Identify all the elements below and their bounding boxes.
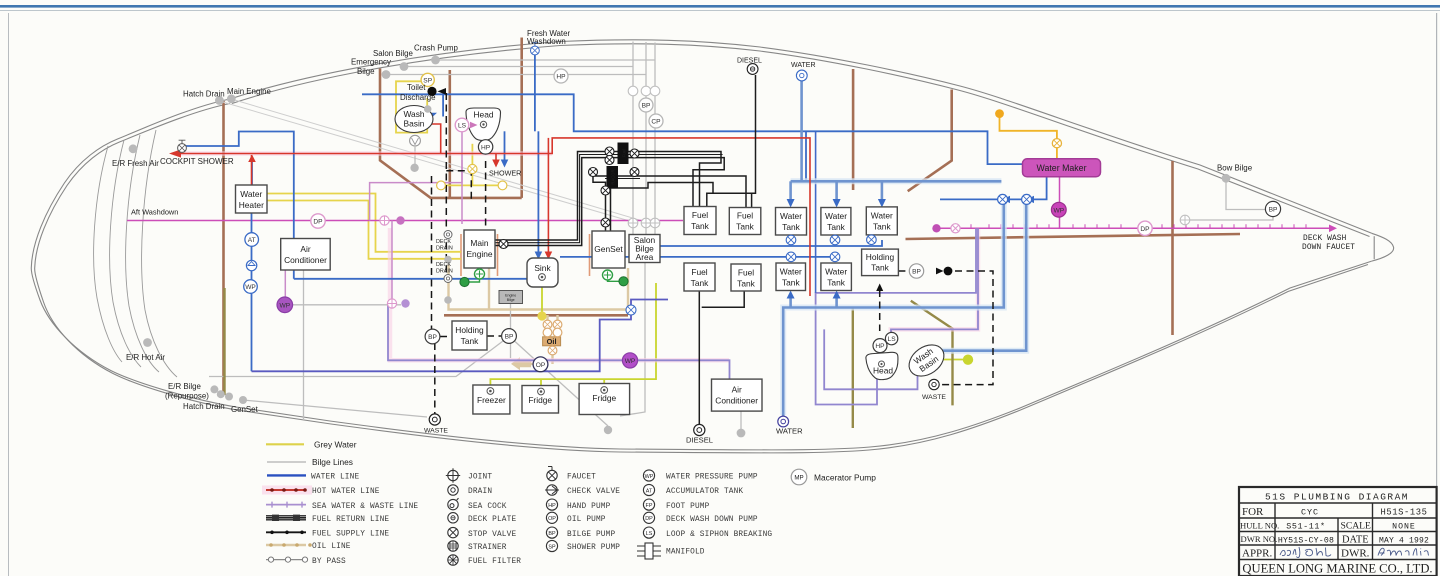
svg-text:Conditioner: Conditioner: [284, 255, 327, 265]
legend accumulator tank: [643, 484, 743, 496]
deck drain labels: [436, 239, 453, 275]
svg-text:Bilge Lines: Bilge Lines: [312, 457, 353, 467]
toilet discharge arrow: [438, 88, 447, 95]
svg-text:DP: DP: [645, 516, 653, 522]
legend fuel return line: [266, 515, 389, 524]
svg-text:51S PLUMBING DIAGRAM: 51S PLUMBING DIAGRAM: [1265, 492, 1409, 503]
svg-text:HULL NO.: HULL NO.: [1240, 520, 1279, 530]
svg-text:OP: OP: [548, 516, 556, 522]
svg-text:WATER LINE: WATER LINE: [311, 474, 359, 482]
signature appr: [1280, 547, 1331, 558]
air conditioner fwd: [712, 379, 763, 411]
oil pump arrow: [511, 357, 531, 370]
svg-text:Tank: Tank: [691, 221, 710, 231]
fuel tank 4: [731, 264, 761, 291]
by pass dashed lines: [432, 93, 994, 414]
svg-text:Bilge: Bilge: [507, 298, 515, 302]
waste basin loop: [824, 329, 917, 389]
bilge pump BP aft1: [425, 329, 440, 344]
bilge line emergency: [386, 42, 646, 235]
fuel return ME: [495, 158, 724, 246]
crash pump CP grey: [649, 114, 663, 128]
svg-text:Bow Bilge: Bow Bilge: [1217, 164, 1253, 173]
svg-text:FUEL RETURN LINE: FUEL RETURN LINE: [312, 516, 389, 524]
tank manifold drop: [805, 131, 807, 181]
legend water line: [267, 474, 359, 482]
legend oil pump: [546, 512, 605, 524]
svg-text:BP: BP: [428, 334, 437, 341]
fuel valves: [499, 147, 639, 249]
olive drain lines: [225, 288, 953, 428]
fuel tank 3: [684, 263, 715, 291]
toilet discharge label: [400, 83, 436, 102]
bulkhead cockpit mid: [448, 70, 451, 198]
svg-text:WP: WP: [1053, 207, 1064, 214]
legend macerator pump: [791, 469, 876, 485]
wash basin hot: [429, 124, 441, 154]
waste pump WP mid: [622, 353, 637, 368]
legend grey water: [266, 440, 357, 450]
main engine: [464, 230, 495, 268]
svg-text:DP: DP: [1140, 226, 1150, 233]
svg-text:Main Engine: Main Engine: [227, 87, 271, 96]
grey water heater loop lower: [267, 201, 461, 259]
cockpit shower hot: [176, 138, 810, 296]
svg-text:WASTE: WASTE: [922, 394, 946, 401]
deck plate water bottom: [778, 416, 789, 427]
sea water orchid lines: [285, 132, 462, 304]
svg-text:Tank: Tank: [827, 278, 846, 288]
oil tan lines: [449, 265, 629, 364]
wash basin feed: [442, 94, 444, 116]
svg-text:WP: WP: [645, 474, 654, 480]
shower pump SP: [421, 73, 434, 86]
svg-text:Fuel: Fuel: [738, 268, 754, 278]
basin aft drain dot: [410, 164, 418, 172]
oil strainers: [543, 320, 562, 355]
bypass holding aft: [431, 176, 433, 330]
title text: [1265, 492, 1429, 546]
svg-text:Air: Air: [732, 385, 742, 395]
legend loop siphon breaking: [643, 527, 772, 539]
water tank 2: [821, 208, 851, 236]
svg-text:OIL LINE: OIL LINE: [312, 543, 351, 551]
svg-text:DWR NO.: DWR NO.: [1241, 534, 1278, 544]
tank feed lower manifold: [783, 199, 1004, 421]
deck plate water top: [796, 70, 807, 81]
legend hand pump: [546, 499, 610, 511]
fuel return genset: [611, 183, 714, 232]
legend fuel supply line: [266, 531, 389, 539]
water heater drop: [251, 214, 253, 372]
svg-text:Tank: Tank: [736, 222, 755, 232]
svg-text:SP: SP: [548, 544, 556, 550]
svg-text:Freezer: Freezer: [477, 395, 506, 405]
svg-text:DECK WASH DOWN PUMP: DECK WASH DOWN PUMP: [666, 516, 758, 524]
svg-text:FP: FP: [646, 503, 653, 509]
grey water chartreuse: [490, 281, 966, 390]
bilge WP aft link: [292, 304, 401, 306]
amber water maker feed: [1000, 117, 1057, 159]
legend shower pump: [546, 540, 620, 552]
holding tank fwd: [862, 249, 899, 276]
tank valves: [626, 235, 876, 315]
fuel supply genset: [593, 176, 746, 231]
water tank 4: [776, 263, 806, 291]
svg-text:WASTE: WASTE: [424, 428, 448, 435]
svg-text:Tank: Tank: [737, 279, 756, 289]
steel line glow: [783, 181, 1026, 415]
legend faucet: [547, 467, 596, 482]
legend strainer: [448, 541, 507, 552]
svg-text:WP: WP: [245, 284, 256, 291]
loop siphon LS aft: [455, 118, 469, 132]
svg-text:JOINT: JOINT: [468, 474, 492, 482]
svg-text:FOR: FOR: [1242, 506, 1264, 518]
hot water red network: [176, 124, 810, 296]
legend sea cock: [448, 498, 507, 511]
svg-text:BY PASS: BY PASS: [312, 558, 346, 566]
amber dot: [995, 109, 1004, 118]
svg-text:WATER PRESSURE PUMP: WATER PRESSURE PUMP: [666, 474, 758, 482]
shower drop: [504, 131, 506, 160]
salon bilge area: [629, 235, 660, 263]
fridge2 drain: [601, 387, 608, 394]
svg-text:DECK PLATE: DECK PLATE: [468, 516, 516, 524]
legend deck wash down pump: [643, 512, 758, 524]
waste head loop: [816, 228, 976, 404]
svg-text:DRAIN: DRAIN: [468, 488, 492, 496]
bilge grey lines: [209, 42, 1273, 430]
legend stop valve: [448, 527, 517, 538]
bilge point dots: [129, 56, 1231, 438]
tank fill arrows: [429, 113, 1034, 299]
head water violet vertical: [815, 131, 817, 293]
svg-text:Oil: Oil: [547, 337, 557, 346]
bilge line AC drain: [303, 270, 305, 420]
svg-text:Heater: Heater: [239, 200, 264, 210]
bulkhead mid ship: [852, 69, 855, 190]
bilge line main engine: [231, 99, 646, 222]
svg-text:BP: BP: [505, 334, 514, 341]
deck plate diesel bottom: [694, 424, 705, 435]
svg-text:Area: Area: [636, 252, 654, 262]
deck plate waste aft: [429, 414, 440, 425]
bilge engine box drain: [510, 303, 512, 358]
head aft shape: [466, 108, 501, 141]
svg-text:ACCUMULATOR TANK: ACCUMULATOR TANK: [666, 488, 743, 496]
svg-text:Water: Water: [780, 267, 802, 277]
bilge line salon: [404, 42, 633, 236]
svg-text:Main: Main: [470, 238, 488, 248]
bilge drain basin aft: [414, 147, 416, 164]
loop siphon LS fwd: [885, 332, 897, 344]
water heater: [236, 185, 268, 213]
head aft drain: [480, 121, 486, 127]
svg-text:S51-11*: S51-11*: [1286, 522, 1325, 532]
svg-text:Tank: Tank: [871, 263, 890, 273]
svg-text:Fuel: Fuel: [737, 211, 753, 221]
aft washdown magenta line: [127, 221, 1329, 229]
svg-text:HOT WATER LINE: HOT WATER LINE: [312, 488, 380, 496]
svg-text:Toilet: Toilet: [407, 83, 426, 92]
svg-text:DRAIN: DRAIN: [436, 269, 453, 275]
water maker pump WP fwd: [1051, 202, 1066, 217]
svg-text:FAUCET: FAUCET: [567, 474, 596, 482]
legend deck plate: [448, 513, 517, 524]
bilge line AC fwd drain: [740, 411, 742, 429]
svg-text:LS: LS: [888, 336, 897, 343]
svg-text:STRAINER: STRAINER: [468, 544, 507, 552]
svg-text:MP: MP: [794, 475, 803, 482]
legend drain: [448, 485, 493, 496]
svg-text:DP: DP: [313, 219, 323, 226]
grey water dot basin fwd: [963, 355, 973, 365]
sink feed: [537, 131, 539, 252]
water deck fill drop: [800, 80, 803, 181]
svg-text:Fuel: Fuel: [692, 210, 708, 220]
deck plate diesel top: [747, 64, 758, 75]
toilet SP drain dot: [424, 105, 432, 113]
fresh water washdown drop: [534, 55, 536, 131]
svg-text:DATE: DATE: [1342, 534, 1369, 545]
fuel tank 2: [729, 208, 761, 235]
title block: [1239, 487, 1437, 576]
washdown ticks: [971, 224, 1306, 228]
washdown pair left: [391, 221, 393, 304]
svg-text:DECK: DECK: [436, 262, 451, 268]
water tank 5: [821, 263, 852, 291]
shower hot drop: [495, 154, 497, 161]
svg-text:Holding: Holding: [866, 252, 895, 262]
bilge line bow: [1226, 181, 1266, 210]
sink drain: [539, 274, 546, 281]
svg-text:Air: Air: [300, 244, 310, 254]
svg-text:Bilge: Bilge: [357, 67, 375, 76]
svg-text:Fuel: Fuel: [622, 149, 627, 157]
svg-text:GenSet: GenSet: [231, 405, 259, 414]
svg-text:Fuel: Fuel: [691, 267, 707, 277]
diesel fill drop: [707, 75, 756, 207]
washdown dot aft: [396, 216, 404, 224]
svg-text:SEA COCK: SEA COCK: [468, 503, 507, 511]
svg-text:OIL PUMP: OIL PUMP: [567, 516, 606, 524]
svg-text:GenSet: GenSet: [594, 244, 623, 254]
cockpit shower water: [184, 132, 294, 279]
svg-text:E/R Fresh Air: E/R Fresh Air: [112, 159, 159, 168]
fuel crossover lower: [698, 291, 700, 424]
main water loop upper: [362, 94, 1023, 164]
hull outline: [31, 40, 1393, 453]
faucet fresh water washdown: [531, 43, 540, 55]
svg-text:BP: BP: [642, 103, 651, 110]
deck plate waste fwd: [929, 379, 939, 389]
pink glow hot water: [176, 154, 978, 361]
bilge line bow fwd: [1188, 216, 1273, 220]
svg-text:BP: BP: [1269, 207, 1278, 214]
grey water shower run: [441, 184, 503, 186]
sink hot drop: [547, 138, 549, 252]
macerator WP aft purple: [277, 297, 293, 313]
red arrows: [169, 120, 552, 259]
svg-text:RACOR: RACOR: [611, 169, 616, 184]
head water drop: [938, 199, 1026, 350]
svg-text:DIESEL: DIESEL: [686, 436, 713, 445]
legend hot water line: [262, 486, 380, 497]
water branch salon: [294, 278, 540, 280]
amber valve: [1052, 139, 1061, 148]
indigo bilge water run: [252, 300, 669, 372]
svg-text:E/R Hot Air: E/R Hot Air: [126, 353, 165, 362]
bilge joints mid: [628, 218, 660, 228]
bilge line salon area down: [620, 262, 645, 416]
bilge pump BP bow: [1265, 201, 1280, 216]
bilge line crash pump: [436, 43, 656, 236]
legend water pressure pump: [643, 470, 758, 482]
waste line AC run: [388, 304, 730, 380]
svg-text:Water: Water: [871, 211, 893, 221]
svg-text:Fridge: Fridge: [592, 393, 616, 403]
fuel return thick pair: [495, 155, 723, 243]
svg-text:SEA WATER & WASTE LINE: SEA WATER & WASTE LINE: [312, 503, 418, 511]
svg-text:OP: OP: [536, 362, 546, 369]
holding tank aft: [452, 321, 487, 350]
svg-text:Wash: Wash: [403, 109, 424, 119]
svg-text:FUEL SUPPLY LINE: FUEL SUPPLY LINE: [312, 531, 389, 539]
svg-text:Holding: Holding: [455, 325, 484, 335]
bulkhead cockpit right: [520, 38, 523, 198]
water tank 1: [776, 208, 807, 236]
accumulator AT: [245, 233, 259, 247]
svg-text:QUEEN LONG MARINE CO., LTD.: QUEEN LONG MARINE CO., LTD.: [1242, 562, 1432, 576]
svg-text:Aft Washdown: Aft Washdown: [131, 208, 178, 217]
head fwd shape: [866, 352, 900, 381]
svg-text:DRAIN: DRAIN: [436, 246, 453, 252]
svg-text:Tank: Tank: [782, 222, 801, 232]
head fwd drain: [879, 361, 885, 367]
svg-text:DWR.: DWR.: [1341, 547, 1370, 559]
bulkhead bow: [1171, 161, 1174, 335]
grey water heater loop upper: [267, 194, 461, 252]
legend bilge lines: [267, 457, 353, 467]
svg-text:Engine: Engine: [505, 293, 516, 297]
fuel supply ME: [495, 152, 721, 241]
tank arrows verticals: [789, 181, 792, 200]
svg-text:HY51S-CY-08: HY51S-CY-08: [1278, 536, 1334, 545]
grey water toilet box: [396, 81, 427, 132]
tank return line: [629, 240, 882, 246]
deck wash DP bow: [1138, 221, 1152, 235]
svg-text:CP: CP: [651, 119, 661, 126]
svg-text:CHECK VALVE: CHECK VALVE: [567, 488, 620, 496]
violet waste lines: [388, 228, 978, 404]
svg-text:Fridge: Fridge: [528, 395, 552, 405]
svg-text:Water: Water: [240, 189, 262, 199]
fuel tank 1: [684, 207, 716, 235]
engine bilge box: [499, 291, 523, 304]
bilge line ER bilge: [243, 400, 427, 417]
oil filter box: [543, 337, 561, 346]
bulkhead brown lines: [224, 38, 1241, 396]
washdown joint aft: [380, 216, 389, 225]
LS drain line: [370, 132, 462, 221]
bilge pump BP grey: [639, 98, 653, 112]
faucet cockpit shower: [178, 140, 187, 152]
oil line filter to pump: [551, 345, 553, 364]
svg-text:WP: WP: [279, 302, 290, 309]
svg-text:DOWN FAUCET: DOWN FAUCET: [1302, 244, 1355, 252]
green sea valves: [475, 269, 485, 279]
svg-text:FUEL FILTER: FUEL FILTER: [468, 558, 521, 566]
water line blue network: [184, 55, 1047, 371]
yellow joints shower: [437, 181, 507, 190]
green dot fwd: [619, 277, 628, 286]
svg-text:APPR.: APPR.: [1242, 548, 1273, 560]
svg-text:LS: LS: [646, 531, 653, 537]
svg-text:Tank: Tank: [461, 336, 480, 346]
svg-text:HP: HP: [481, 145, 491, 152]
bulkhead fwd diagonal: [908, 90, 952, 192]
svg-text:Engine: Engine: [466, 249, 492, 259]
svg-text:Sink: Sink: [534, 263, 551, 273]
svg-text:SHOWER: SHOWER: [489, 169, 521, 178]
water maker outlet: [940, 177, 1047, 200]
svg-text:NONE: NONE: [1392, 523, 1416, 532]
bypass black dot: [944, 267, 953, 276]
svg-text:Washdown: Washdown: [527, 37, 566, 46]
deck drain dots: [444, 256, 452, 264]
bilge pump BP aft2: [502, 329, 517, 344]
sink drain: [541, 281, 543, 313]
water tank 3: [866, 207, 897, 235]
oil pump outlet: [531, 363, 534, 365]
svg-text:Tank: Tank: [782, 278, 801, 288]
racor filter 1: [618, 143, 629, 165]
oil line ME loop: [449, 265, 629, 310]
legend foot pump: [643, 499, 709, 511]
svg-text:Tank: Tank: [827, 222, 846, 232]
legend check valve: [545, 485, 620, 496]
green dot aft: [460, 277, 469, 286]
diesel branch tank B: [751, 193, 753, 207]
svg-text:Hatch Drain: Hatch Drain: [183, 90, 225, 99]
freezer drain: [487, 388, 494, 395]
bypass toilet: [445, 93, 447, 278]
bilge line hatch drain aft: [219, 101, 633, 222]
svg-text:STOP VALVE: STOP VALVE: [468, 531, 516, 539]
washdown arrow bow: [1329, 225, 1337, 233]
LS arrow: [470, 122, 478, 129]
salmon engine lines: [461, 234, 590, 276]
svg-text:MANIFOLD: MANIFOLD: [666, 549, 705, 557]
svg-text:HP: HP: [556, 74, 566, 81]
deck drain symbols ME: [444, 231, 452, 283]
waste joint mid: [387, 299, 396, 308]
bulkhead fwd horizontal: [906, 234, 1241, 239]
bulkhead stern: [222, 101, 225, 395]
svg-text:COCKPIT SHOWER: COCKPIT SHOWER: [160, 157, 234, 166]
grey water yellow lines: [267, 81, 503, 258]
green lines: [465, 279, 620, 282]
svg-text:BILGE PUMP: BILGE PUMP: [567, 531, 615, 539]
washdown valve fwd: [951, 224, 960, 233]
svg-text:Basin: Basin: [404, 119, 425, 129]
tank return lower: [560, 256, 835, 258]
svg-text:SHOWER PUMP: SHOWER PUMP: [567, 544, 620, 552]
grey water dot sink: [537, 311, 546, 320]
fuel black network: [495, 75, 756, 424]
stop valves water maker: [998, 194, 1032, 204]
